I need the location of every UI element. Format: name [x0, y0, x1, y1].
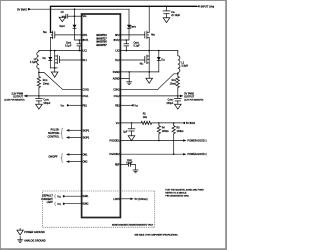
transistor NL1: [43, 51, 60, 68]
node DEFAULT CURRENT LIMIT: [41, 195, 53, 204]
svg-text:2x 10µF: 2x 10µF: [171, 15, 180, 17]
svg-text:150µF: 150µF: [166, 103, 173, 105]
svg-text:ILIM2: ILIM2: [83, 204, 90, 206]
wire CSL1 / output1: [27, 95, 81, 97]
svg-text:10Ω: 10Ω: [143, 116, 148, 119]
junction R5/PGOOD2: [173, 153, 175, 155]
legend ground power: [17, 228, 45, 235]
svg-text:MAX8756: MAX8756: [96, 42, 107, 44]
wire NH2 source to LX2: [148, 38, 150, 51]
svg-text:(1.05V FOR MAX8757): (1.05V FOR MAX8757): [4, 98, 24, 101]
diode D2 bootstrap: [127, 9, 136, 28]
svg-text:5V (100mA): 5V (100mA): [135, 198, 148, 201]
ground analog (AGND): [126, 79, 132, 85]
node PULSE-SKIPPING CONTROL: [48, 128, 63, 139]
node 5V BIAS label top-left: [17, 7, 32, 11]
svg-text:BST1: BST1: [83, 40, 90, 42]
svg-text:0.1µF: 0.1µF: [134, 46, 141, 48]
svg-text:SEE TABLE 1 FOR COMPONENT SPEC: SEE TABLE 1 FOR COMPONENT SPECIFICATIONS…: [135, 234, 179, 237]
wire NL1 source bottom: [50, 67, 57, 69]
svg-text:CSL2: CSL2: [114, 96, 121, 98]
junction VDD tap: [74, 15, 76, 17]
svg-text:CSH2: CSH2: [113, 90, 120, 92]
svg-text:PGOOD2: PGOOD2: [110, 154, 121, 156]
note MAX8756 GND: [165, 188, 204, 197]
svg-text:VCC: VCC: [57, 196, 61, 198]
svg-text:MAX8717: MAX8717: [96, 38, 107, 40]
svg-text:PGND: PGND: [113, 72, 120, 74]
junction PGND/AGND rail: [128, 71, 130, 73]
transistor NH1: [43, 31, 55, 39]
ground power (NL1): [51, 68, 58, 77]
node 3.3V PWM OUTPUT label: [4, 93, 27, 101]
svg-text:NH2: NH2: [151, 34, 155, 36]
page border top: [0, 0, 227, 2]
junction pullup R5: [173, 122, 175, 124]
legend ground analog: [17, 237, 46, 243]
svg-text:100kΩ: 100kΩ: [162, 130, 169, 133]
svg-text:ON/OFF: ON/OFF: [48, 157, 58, 159]
svg-text:ON1: ON1: [83, 154, 88, 156]
svg-text:LX1: LX1: [83, 50, 88, 52]
wire ILIM2 VCC: [55, 202, 82, 206]
junction LX2/DL2: [158, 50, 160, 52]
svg-text:RCS1: RCS1: [43, 80, 48, 82]
svg-text:REF: REF: [115, 165, 120, 167]
wire ON2: [66, 160, 82, 163]
wire DH1 gate: [55, 34, 82, 36]
node INPUT (VIN) label: [196, 4, 214, 8]
diode DL1 schottky: [48, 51, 52, 68]
svg-text:VCC: VCC: [60, 105, 64, 107]
wire NH1 source to LX1: [50, 38, 52, 51]
svg-text:SKIP1: SKIP1: [83, 130, 90, 132]
svg-text:CIN: CIN: [171, 12, 174, 14]
wire R1 to 5V BIAS: [152, 122, 182, 124]
svg-text:ILIM1: ILIM1: [83, 196, 90, 198]
svg-text:OUTPUT: OUTPUT: [13, 96, 23, 98]
dashed box MAX871x only: [43, 191, 155, 227]
resistor RCS1: [37, 72, 49, 89]
svg-text:SKIP2: SKIP2: [83, 137, 90, 139]
junction LX1/CBST1: [79, 50, 81, 52]
junction L2/RCS2/CSH2: [177, 73, 179, 75]
transistor NH2: [145, 31, 155, 39]
svg-text:MAX8716: MAX8716: [96, 35, 107, 37]
svg-text:AGND: AGND: [113, 78, 120, 81]
wire VDD pin: [75, 15, 82, 17]
svg-text:CBST1: CBST1: [66, 43, 72, 45]
junction CIN: [166, 6, 168, 8]
IC U1 MAX8716/MAX8717/MAX8756/MAX8757: [82, 14, 121, 218]
diode DL2 schottky: [157, 51, 165, 72]
svg-text:CURRENT: CURRENT: [41, 199, 53, 201]
junction BST2/CBST2: [126, 39, 128, 41]
junction LX2/NH2: [148, 50, 150, 52]
ground power (CIN): [163, 18, 170, 23]
svg-text:MAX8757: MAX8757: [96, 45, 107, 47]
wire PGOOD2: [120, 153, 183, 155]
resistor RCS2: [170, 74, 180, 90]
svg-text:PULSE-: PULSE-: [51, 129, 60, 131]
wire LX1: [39, 50, 82, 52]
node VCC to FB1: [60, 104, 81, 107]
svg-text:ON2: ON2: [83, 162, 88, 164]
junction BST1/CBST1: [79, 39, 81, 41]
svg-text:COUT1: COUT1: [43, 100, 49, 102]
junction PGND/NL2: [148, 71, 150, 73]
node POWER-GOOD 1: [183, 139, 207, 142]
junction L1/RCS1/CSH1: [38, 72, 40, 74]
wire 5V BIAS rail y=9.2: [32, 8, 129, 10]
svg-text:POWER GROUND: POWER GROUND: [24, 232, 45, 234]
wire CSH1: [39, 72, 82, 89]
junction LX1/NH1: [50, 50, 52, 52]
svg-text:10mΩ: 10mΩ: [170, 82, 177, 85]
svg-text:MAX8716/MAX8717/MAX8756/MAX875: MAX8716/MAX8717/MAX8756/MAX8757 ONLY: [112, 224, 154, 227]
transistor NL2: [140, 51, 149, 72]
svg-text:DL2: DL2: [161, 59, 165, 61]
svg-text:4.7µH: 4.7µH: [30, 62, 37, 64]
wire SKIP1: [66, 129, 82, 132]
svg-text:3.3V PWM: 3.3V PWM: [11, 93, 23, 95]
junction NL1 drain rail top: [54, 50, 56, 52]
svg-text:NL2: NL2: [140, 64, 144, 66]
node VCC to FB2: [120, 104, 138, 107]
ground power (VDD bypass): [59, 16, 65, 21]
wire D1 to BST1: [75, 28, 82, 40]
wire INPUT rail: [51, 6, 197, 32]
wire ON1: [66, 153, 82, 156]
svg-text:FB2: FB2: [115, 105, 120, 107]
capacitor COUT1: [35, 96, 51, 105]
inductor L1: [30, 51, 39, 73]
wire RCS2 to output node: [177, 89, 179, 96]
wire RCS1 to output node: [38, 89, 40, 96]
svg-text:(1.5V FOR MAX8757): (1.5V FOR MAX8757): [184, 98, 203, 101]
wire bypass cap lead: [68, 15, 75, 17]
svg-text:CONTROL: CONTROL: [48, 137, 60, 139]
wire DH2 gate: [120, 34, 144, 36]
wire VCC supply line: [120, 122, 141, 124]
ground power (NL2/PGND): [146, 72, 153, 83]
page border bottom: [0, 248, 227, 250]
svg-text:VCC: VCC: [134, 105, 138, 107]
wire PGND: [120, 71, 158, 73]
wire CSH2: [120, 74, 177, 90]
ground power (COUT2): [175, 104, 182, 109]
svg-text:CSL1: CSL1: [83, 96, 90, 98]
svg-text:0.1µF: 0.1µF: [65, 46, 72, 48]
capacitor CBST2: [124, 40, 141, 51]
junction 5VBIAS/VDD: [74, 8, 76, 10]
svg-text:OUTPUT: OUTPUT: [184, 96, 194, 98]
wire DL1 gate: [59, 59, 81, 61]
svg-text:LX2: LX2: [115, 51, 120, 53]
inductor L2: [178, 51, 188, 74]
wire DL2 gate: [120, 59, 144, 61]
ground power (VCC cap): [128, 136, 135, 141]
svg-text:DEFAULT: DEFAULT: [42, 195, 53, 198]
svg-text:VCC: VCC: [57, 204, 61, 206]
svg-text:POWER-GOOD 1: POWER-GOOD 1: [188, 141, 208, 143]
ground power (COUT1): [36, 104, 43, 109]
svg-text:0.1µF: 0.1µF: [126, 162, 133, 164]
junction output1: [38, 95, 40, 97]
junction LX2/CBST2: [126, 50, 128, 52]
capacitor CBST1: [65, 40, 82, 51]
wire CSL2 / output2: [120, 95, 180, 97]
wire VDD vertical branch: [74, 9, 76, 25]
svg-text:LIMIT: LIMIT: [47, 202, 54, 204]
svg-text:5V PWM: 5V PWM: [184, 93, 193, 95]
resistor R1: [141, 114, 152, 125]
svg-text:100kΩ: 100kΩ: [177, 130, 184, 133]
svg-text:3.3µH: 3.3µH: [181, 66, 188, 68]
junction NL1 source rail bottom: [54, 67, 56, 69]
junction NH2 drain: [148, 6, 150, 8]
svg-text:1µF: 1µF: [123, 131, 128, 133]
svg-text:NL1: NL1: [43, 58, 47, 60]
wire LX2: [120, 51, 177, 53]
node 5V BIAS right: [182, 122, 196, 125]
svg-text:NH1: NH1: [43, 32, 47, 34]
wire D2 to BST2: [120, 28, 129, 40]
svg-text:PIN DESIGNATED GND.: PIN DESIGNATED GND.: [165, 194, 189, 197]
svg-text:DL2: DL2: [115, 60, 120, 62]
svg-text:DBST1: DBST1: [60, 26, 66, 28]
wire PGOOD1: [120, 140, 183, 142]
page border right: [225, 0, 227, 250]
wire R5 to PGOOD2: [173, 134, 175, 154]
svg-text:CSH1: CSH1: [83, 90, 90, 92]
svg-text:FOR THE MAX8756, AGND AND PGND: FOR THE MAX8756, AGND AND PGND: [165, 188, 204, 191]
wire ILIM1 VCC: [55, 194, 82, 198]
svg-text:ANALOG GROUND: ANALOG GROUND: [24, 240, 46, 243]
junction output2: [177, 95, 179, 97]
capacitor C5 VDD bypass: [61, 12, 68, 19]
wire LDO5 output: [120, 198, 147, 201]
capacitor CREF: [120, 160, 135, 170]
svg-text:10mΩ: 10mΩ: [43, 82, 50, 85]
svg-text:DBST2: DBST2: [130, 26, 136, 28]
junction R4/PGOOD1: [158, 140, 160, 142]
svg-text:5V BIAS: 5V BIAS: [17, 7, 27, 11]
node ON/OFF: [48, 154, 63, 163]
svg-text:DH2: DH2: [115, 35, 120, 37]
wire AGND: [120, 72, 129, 79]
svg-text:LDO5: LDO5: [113, 199, 120, 201]
wire SKIP2: [66, 136, 82, 139]
node 5V PWM OUTPUT label: [180, 93, 204, 101]
wire R4 to PGOOD1: [158, 134, 160, 140]
node POWER-GOOD 2: [183, 153, 207, 156]
svg-text:CBST2: CBST2: [134, 43, 140, 45]
svg-text:150µF: 150µF: [43, 103, 50, 105]
wire NH2 drain to input rail: [148, 6, 150, 32]
svg-text:FB1: FB1: [83, 105, 88, 107]
svg-text:POWER-GOOD 2: POWER-GOOD 2: [188, 154, 208, 156]
svg-text:SKIPPING: SKIPPING: [48, 133, 60, 135]
capacitor C4 VCC bypass: [123, 123, 135, 136]
diode D1 bootstrap: [60, 25, 77, 29]
svg-text:5V BIAS: 5V BIAS: [186, 122, 196, 125]
junction pullup R4: [158, 122, 160, 124]
svg-text:COUT2: COUT2: [168, 100, 174, 102]
svg-text:REFER TO A SINGLE: REFER TO A SINGLE: [165, 191, 187, 194]
svg-text:DH1: DH1: [83, 35, 88, 37]
junction VCC cap: [131, 122, 133, 124]
ground analog (CREF): [133, 170, 139, 173]
capacitor CIN: [163, 6, 181, 17]
capacitor COUT2: [166, 96, 181, 105]
resistor R4 pullup: [157, 123, 169, 134]
page border left: [0, 0, 2, 250]
svg-text:DL1: DL1: [83, 60, 88, 62]
resistor R5 pullup: [172, 123, 184, 134]
svg-text:BST2: BST2: [114, 40, 121, 42]
svg-text:PGOOD1: PGOOD1: [110, 141, 121, 143]
